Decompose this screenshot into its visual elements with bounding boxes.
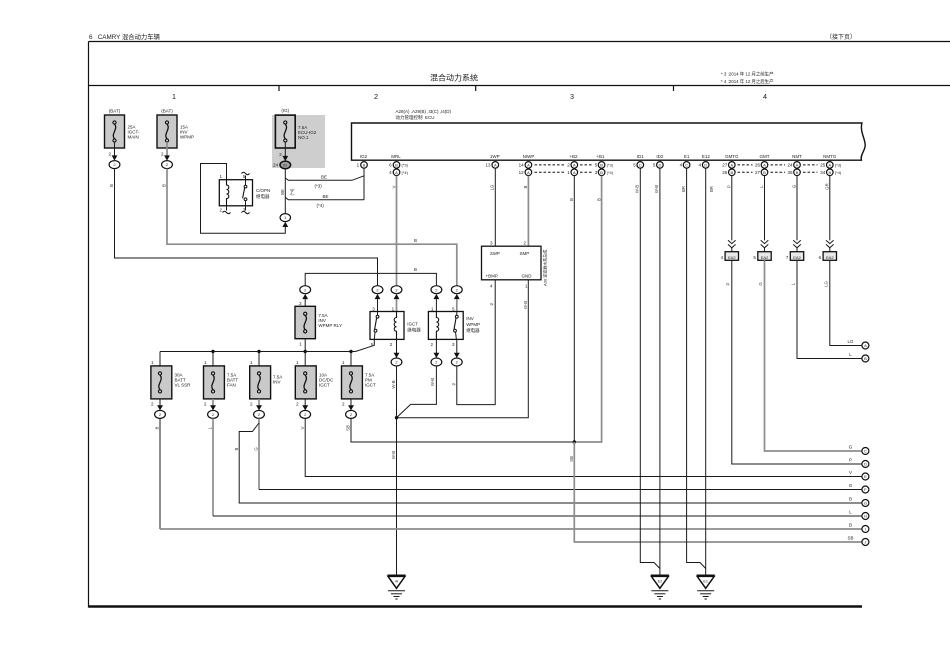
svg-text:V: V [391,185,396,188]
wire B branch from fuse B3 to terminal G [234,423,862,503]
svg-text:D: D [704,163,707,168]
svg-text:D: D [864,462,867,467]
svg-text:B: B [796,170,799,175]
svg-text:J: J [864,540,866,545]
svg-text:MAIN: MAIN [128,135,139,140]
ground E1 [697,575,715,599]
svg-text:BR: BR [709,186,714,192]
svg-text:动力管理控制 ECU: 动力管理控制 ECU [396,114,435,121]
svg-text:24: 24 [273,163,279,168]
ECU pin NIWP 14(A)/12(A) [519,162,532,176]
continuation tilde above K1 pin 5 [242,172,250,179]
svg-text:继电器: 继电器 [407,327,421,334]
fuse B5 7.5A PM IGCT [342,352,377,419]
svg-text:25: 25 [820,163,826,168]
connector oval above F4 [300,286,311,307]
svg-text:B: B [363,163,366,168]
svg-text:WPMP: WPMP [466,322,480,327]
fuse F4 7.5A INV WPMP RLY [295,301,342,347]
svg-text:P: P [727,185,732,188]
connector oval above INV WPMP relay pin 5 [451,286,462,312]
ground E2 [651,575,669,599]
svg-text:(IG): (IG) [281,108,289,113]
svg-text:LG: LG [847,339,854,344]
wire B from F1 to IGCT relay pin 3 [109,169,378,286]
svg-text:* 4 :2014 年 12 月之后生产: * 4 :2014 年 12 月之后生产 [721,78,774,85]
ECU pin E12 4(D) [699,162,709,169]
svg-text:B: B [763,170,766,175]
svg-text:35: 35 [787,170,793,175]
wire IG2 pin vertical [363,168,365,200]
wire SB from fuse B5 to +B junction [346,418,575,442]
svg-text:B: B [155,426,160,429]
fuse F1 pin 2 wire [108,142,117,161]
wire BE (*3) branch to IG2 [285,174,364,188]
shield dashes NMT to NMTG [803,165,818,172]
A30 inverter water pump box [482,240,548,288]
svg-text:SMP: SMP [490,251,500,256]
svg-text:B: B [162,184,167,187]
connector oval above IGCT relay pin 3 [372,286,383,312]
svg-text:* 3 :2014 年 12 月之前生产: * 3 :2014 年 12 月之前生产 [721,71,774,78]
svg-text:26: 26 [755,163,761,168]
svg-text:B: B [234,447,239,450]
fuse bank bus wire [160,351,356,353]
svg-text:NO.1: NO.1 [298,135,309,140]
wire V from ECU MRL to IGCT relay coil [391,176,396,286]
svg-text:(*4): (*4) [402,170,409,175]
terminal circle C [862,448,869,455]
svg-text:B: B [523,185,528,188]
terminal circle B [862,355,869,362]
fuse B4 10A DC/DC IGCT [295,360,334,418]
svg-text:LG: LG [824,280,829,286]
svg-text:(BAT): (BAT) [161,109,173,114]
svg-text:G: G [864,501,867,506]
svg-text:I: I [865,527,866,532]
svg-text:混合动力系统: 混合动力系统 [430,73,478,83]
svg-text:(BAT): (BAT) [109,109,121,114]
svg-text:(*3): (*3) [607,163,614,168]
svg-text:(*4): (*4) [317,203,325,208]
wire W-B INV WPMP pin2 joins junction [397,366,437,418]
wire B from ECU NIWP to A30 pin 2 [523,176,528,246]
svg-text:A: A [494,163,497,168]
section numbers [172,92,767,101]
connector oval under F1 [109,161,120,169]
ECU pin MRL 6(B)(*3) / 4(A)(*4) [389,162,408,176]
relay K3 INV WPMP box [428,312,463,340]
svg-text:(*4): (*4) [607,170,614,175]
fuse F2 15A INV WPMP (BAT) [157,109,194,149]
svg-text:INV: INV [466,316,474,321]
svg-text:B: B [569,198,574,201]
svg-text:SB: SB [847,536,853,541]
ECU pin +B1 5(B)(*3)/3(B)(*4) [595,162,614,176]
connector oval below INV WPMP pin 2 [431,358,442,366]
connector oval below INV WPMP pin 3 [451,358,462,366]
shield dashes GMT to NMT [771,165,786,172]
svg-text:ID: ID [283,163,287,168]
svg-text:6 CAMRY 混合动力车辆: 6 CAMRY 混合动力车辆 [89,32,160,41]
svg-text:B: B [600,163,603,168]
svg-text:LG: LG [489,184,494,190]
svg-text:SB: SB [569,456,574,462]
shield connector EA2 no.6 [819,240,837,260]
svg-text:14: 14 [519,163,525,168]
svg-text:+B2: +B2 [569,154,578,159]
junction dot +B feed [573,440,576,443]
svg-text:C: C [639,163,642,168]
svg-text:13: 13 [485,163,491,168]
svg-text:A28(A) ,A29(B) ,I3(C) ,I4(D): A28(A) ,A29(B) ,I3(C) ,I4(D) [396,109,452,114]
svg-text:(*3): (*3) [835,163,842,168]
svg-text:24: 24 [787,163,793,168]
ECU pin GMT 26(A)/27(B) [755,162,768,176]
terminal circle D [862,461,869,468]
svg-text:A: A [828,163,831,168]
terminal circle G [862,500,869,507]
svg-text:VL SSR: VL SSR [175,383,192,388]
svg-text:A: A [573,163,576,168]
terminal circle I [862,526,869,533]
wire B from ECU +B2 down [569,176,574,442]
terminal circle J [862,539,869,546]
fuse F1 25A IGCT MAIN (BAT) [105,109,141,149]
svg-text:G: G [849,483,853,488]
wire INV WPMP pin 2 to oval [434,339,440,358]
connector 24(ID) [273,161,291,169]
wire IGCT pin 2 to oval [394,339,400,358]
wire G from fuse B3 to terminal F [254,418,862,489]
ground 4I [388,575,406,599]
continuation tilde below K1 pin 2 [223,206,231,214]
svg-text:继电器: 继电器 [466,327,480,334]
svg-text:B: B [596,198,601,201]
page header text [89,32,856,41]
shield connector EA2 no.7 [786,240,804,260]
ECU pin NMTG 25(A)(*3)/34(B)(*4) [820,162,842,176]
svg-text:34: 34 [820,170,826,175]
svg-text:(*3): (*3) [315,184,323,189]
svg-text:EA2: EA2 [728,255,736,260]
wire SB junction to terminal J [569,442,862,542]
wire P below EA2 to terminal D [726,260,862,464]
wire BE (*4) branch to IG2 [285,194,364,208]
wire L from ECU GMT to shield connector [759,176,764,241]
svg-text:B: B [849,523,852,528]
svg-text:GND: GND [522,274,533,279]
svg-text:IGCT: IGCT [365,383,376,388]
ECU pin ID2 5(D) [653,162,663,169]
page border bottom thick rule [89,605,863,608]
svg-text:B: B [414,267,417,272]
fuse B3 7.5A INV [250,352,283,419]
wire G from ECU NMT to shield connector [792,176,797,241]
terminal circle H [862,513,869,520]
svg-text:E: E [864,474,867,479]
terminal circle A [862,342,869,349]
shaded background for IG fuse [272,115,325,168]
svg-text:D: D [658,163,661,168]
continuation tilde below K1 pin 3 [242,206,250,214]
svg-text:12: 12 [519,170,525,175]
ECU pin E1 4(C) [680,162,690,169]
svg-text:BR: BR [681,186,686,192]
svg-text:B: B [864,356,867,361]
svg-text:G: G [849,445,853,450]
wire B from F2 to INV WPMP relay pin 5 [162,169,457,286]
ECU pin +B2 2(A)/1(A) [567,162,577,176]
fuse F3 pin 2 wire [279,142,288,161]
svg-text:IG2: IG2 [360,154,368,159]
bus junction dots [211,350,352,353]
svg-text:A: A [395,170,398,175]
svg-text:1WP: 1WP [490,154,500,159]
svg-text:(*4): (*4) [835,170,842,175]
svg-text:GMT: GMT [760,154,770,159]
wire W-B from ECU ID2 to ground E2 [654,168,660,575]
fuse B1 30A BATT VL SSR [151,352,191,419]
ECU pin GMTG 27(A)/26(B) [722,162,735,176]
wire BR from ECU E12 to ground E1 [706,168,714,575]
wire BE vertical from 24(ID) to node A [280,169,294,214]
svg-text:EA2: EA2 [761,255,769,260]
relay K2 label IGCT [407,322,421,334]
svg-text:3: 3 [570,92,574,101]
relay K1 pin numbers [220,174,246,212]
svg-text:A: A [573,170,576,175]
svg-text:A: A [730,163,733,168]
svg-text:GMTG: GMTG [725,154,739,159]
svg-text:BE: BE [280,189,285,195]
wire G below EA2 to terminal C [758,260,862,451]
svg-text:NMT: NMT [792,154,802,159]
svg-text:C/OPN: C/OPN [256,188,270,193]
relay K1 switch [243,180,247,206]
connector oval above IGCT relay pin 1 [391,286,402,312]
wire GR from ECU NMTG to shield connector [825,176,830,241]
svg-text:W-B: W-B [654,185,659,193]
ECU pin NMT 24(A)/35(B) [787,162,800,176]
wire BR from ECU E1 to ground E1 [681,168,706,568]
wire L below EA2 to terminal B [791,260,862,358]
relay K1 coil [227,180,229,206]
svg-text:MRL: MRL [391,154,401,159]
wire L from fuse B2 to terminal H [208,418,862,516]
wire W-B IGCT pin2 to ground junction [391,366,396,418]
relay K1 C/OPN box [219,180,252,206]
svg-text:4: 4 [763,92,767,101]
relay K3 pin numbers [431,306,456,347]
wire F4 fuse lower pin through bus to fuse B4 [304,339,306,366]
svg-text:IGCT: IGCT [319,383,330,388]
svg-text:P: P [726,282,731,285]
ECU pin ID1 5(C) [633,162,643,169]
svg-text:BE: BE [321,174,327,179]
shield dashes NIWP to +B2 [535,165,565,172]
wire P from ECU GMTG to shield connector [727,176,732,241]
relay K3 switch [454,312,459,340]
svg-text:INV: INV [273,380,281,385]
ECU pin IG2 1(B) [357,162,368,169]
svg-text:E12: E12 [702,154,711,159]
ECU A28/A29/I3/I4 box [352,123,866,160]
wire W-B junction to ground [391,418,396,576]
svg-text:E2: E2 [658,579,663,583]
svg-text:4I: 4I [395,579,398,583]
svg-text:E1: E1 [684,154,690,159]
svg-text:W-B: W-B [391,380,396,388]
svg-text:V: V [849,470,852,475]
svg-text:V: V [300,426,305,429]
wire W-B from ECU ID1 to ground E2 [635,168,660,568]
svg-text:SB: SB [346,425,351,431]
svg-text:B: B [730,170,733,175]
relay K2 IGCT box [370,312,404,340]
ECU pin 1WP 13(A) [485,162,498,169]
terminal circle F [862,486,869,493]
junction dot relay grounds [395,416,398,419]
svg-text:(*4): (*4) [290,188,295,195]
svg-text:+BMP: +BMP [486,274,498,279]
svg-text:FAN: FAN [227,383,236,388]
svg-text:1: 1 [172,92,176,101]
svg-text:P: P [489,302,494,305]
terminal circle E [862,473,869,480]
svg-text:B: B [600,170,603,175]
relay K3 coil [436,312,438,340]
svg-text:P: P [452,382,457,385]
connector oval above INV WPMP relay pin 1 [431,286,442,312]
title bar rule [89,85,950,87]
svg-text:H: H [864,514,867,519]
svg-text:+B1: +B1 [596,154,605,159]
op ECU U1 label [396,109,452,121]
svg-text:BE: BE [323,194,329,199]
wire B from ECU +B1 joins junction [574,176,601,442]
relay K2 switch [374,312,379,340]
svg-text:A: A [796,163,799,168]
relay K2 coil [394,312,396,340]
svg-text:WPMP: WPMP [180,135,194,140]
svg-text:（接下页）: （接下页） [826,33,856,41]
wire C/OPN coil loop to node A [201,164,286,234]
wire B from fuse B1 to terminal I [155,418,862,529]
svg-text:B: B [395,163,398,168]
page border top rule [89,41,950,43]
svg-text:SMP: SMP [520,251,530,256]
shield connector EA2 no.5 [753,240,771,260]
svg-text:A: A [864,343,867,348]
svg-text:NMTG: NMTG [823,154,837,159]
svg-text:GR: GR [825,183,830,189]
svg-text:C: C [685,163,688,168]
svg-text:26: 26 [722,170,728,175]
shield dashes GMTG to GMT [738,165,753,172]
ECU pin name labels [360,154,837,159]
svg-text:A: A [763,163,766,168]
production notes [721,71,774,86]
connector oval under F2 [162,161,173,169]
svg-text:A: A [527,163,530,168]
relay K2 pin numbers [371,306,395,347]
wire V from fuse B4 to terminal E [300,418,862,476]
relay K3 label INV WPMP [466,316,480,334]
svg-text:27: 27 [755,170,761,175]
svg-text:C: C [864,449,867,454]
svg-text:A: A [527,170,530,175]
svg-text:B: B [109,184,114,187]
svg-text:B: B [849,497,852,502]
svg-text:(*3): (*3) [402,163,409,168]
node A connector oval [280,214,290,227]
wire LG below EA2 to terminal A [824,260,862,345]
svg-text:IGCT: IGCT [407,322,418,327]
shield dashes +B2 to +B1 [580,165,592,172]
svg-text:2: 2 [374,92,378,101]
svg-text:P: P [849,458,852,463]
svg-text:EA2: EA2 [826,255,834,260]
wire B from F4 fuse to INV WPMP relay coil pin 1 [305,267,436,285]
wire LG from ECU 1WP to A30 pin 3 [489,168,495,246]
wire INV WPMP pin 3 to oval [454,339,460,358]
svg-text:W-B: W-B [391,451,396,459]
svg-text:W-B: W-B [430,378,435,386]
connector oval below IGCT pin 2 [391,358,402,366]
svg-text:B: B [828,170,831,175]
relay K1 label C/OPN [256,188,270,200]
svg-text:EA2: EA2 [793,255,801,260]
svg-text:WPMP RLY: WPMP RLY [318,323,342,328]
svg-text:E1: E1 [703,579,708,583]
svg-text:ID1: ID1 [637,154,645,159]
wire IGCT pin 5 to fuse bus [356,339,375,351]
svg-text:B: B [414,238,417,243]
svg-text:ID2: ID2 [656,154,664,159]
wire W-B bus to A30 GND [397,280,529,418]
fuse F3 7.5A ECU-IG2 NO.1 (IG) [275,108,316,148]
fuse F2 pin 2 wire [161,142,170,161]
fuse B2 7.5A BATT FAN [204,352,239,419]
page border left rule [88,42,90,608]
shield connector EA2 no.4 [721,240,739,260]
section tick marks [279,86,674,92]
svg-text:W-B: W-B [635,185,640,193]
wire P INV WPMP pin3 to A30 +BMP [452,280,496,405]
svg-text:继电器: 继电器 [256,193,270,200]
svg-text:A30 逆变器水泵总成: A30 逆变器水泵总成 [542,250,548,286]
svg-text:27: 27 [722,163,728,168]
svg-text:W-B: W-B [523,301,528,309]
svg-text:NIWP: NIWP [523,154,535,159]
